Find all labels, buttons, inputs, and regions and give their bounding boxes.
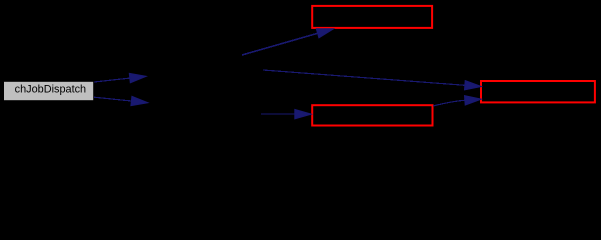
node (hidden middle node B, black on black): [148, 93, 261, 113]
edge E5: middle node B -> red box bottom: [261, 109, 311, 118]
edge E1: chJobDispatch -> middle node A: [94, 73, 146, 82]
node red box top (truncated node): [312, 6, 432, 28]
node red box bottom: [312, 105, 432, 125]
svg-text:chJobDispatch: chJobDispatch: [15, 83, 86, 95]
node chJobDispatch (current node, gray): [4, 81, 94, 100]
edge E6: red box bottom -> red box right: [433, 96, 481, 106]
node (hidden middle node A, black on black): [146, 66, 242, 86]
node red box right: [481, 81, 595, 102]
edge E4: middle node A -> red box right: [263, 70, 481, 90]
edge E3: middle node A -> red box top: [242, 29, 334, 55]
edge E2: chJobDispatch -> middle node B: [94, 96, 148, 105]
